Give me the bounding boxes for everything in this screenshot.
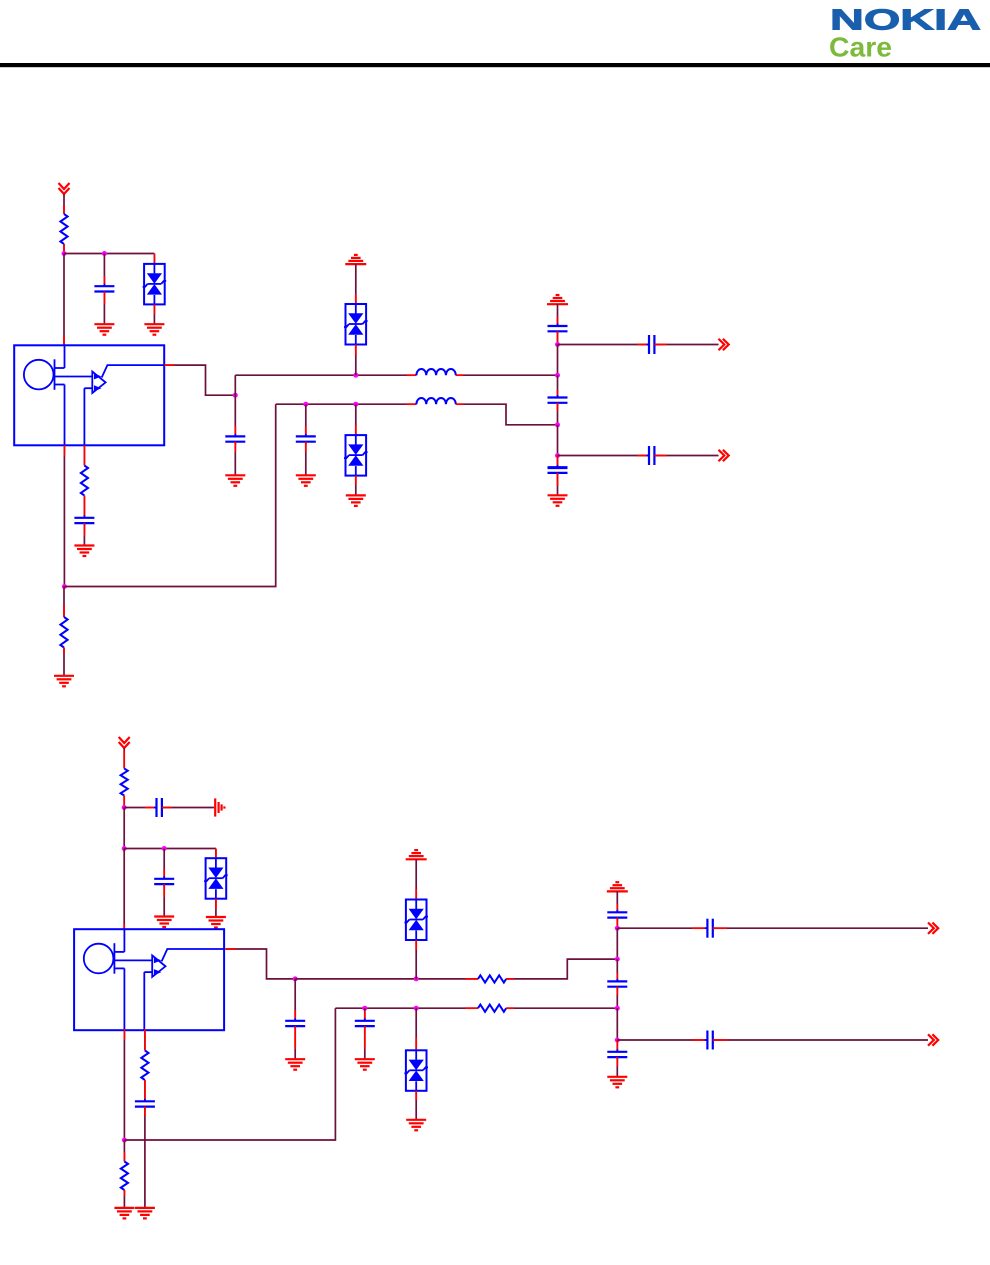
node MIC1P junction (233, 393, 238, 398)
wire OUT2 node to capacitor C7 (557, 456, 559, 468)
capacitor C10 series (145, 798, 164, 817)
TVS diode D4 (204, 858, 228, 899)
wire bus to TVS D4 (215, 849, 217, 859)
wire J1 down to node J2 (123, 808, 125, 849)
wire junction up to positive bus (234, 375, 236, 395)
wire D3 to ground (355, 476, 357, 496)
wire OUT1 node down to bus junction (557, 345, 559, 376)
wire column down to OUT4 node (616, 1008, 618, 1040)
capacitor C3 (296, 434, 316, 444)
resistor R1 bias (60, 214, 67, 244)
wire MIC1 output (164, 365, 235, 395)
wire OUT1 to coupling cap C8 (558, 344, 649, 346)
node B2 junction (122, 1138, 127, 1143)
output port MIC1P (719, 339, 729, 350)
wire R5 to ground (123, 1190, 125, 1208)
ground under C7 (548, 495, 568, 506)
junction negative bus 2 at D6 (414, 1006, 419, 1011)
capacitor C1 bypass (94, 284, 114, 294)
header rule (0, 63, 990, 67)
junction at C1 top (102, 251, 107, 256)
chassis ground above C5 (547, 295, 568, 304)
ground under C1 (94, 324, 114, 335)
junction positive bus at column (555, 373, 560, 378)
capacitor C2 (225, 434, 245, 444)
wire ground to capacitor C5 (557, 304, 559, 326)
ground under D4 (206, 917, 226, 928)
node OUT4 junction (615, 1038, 620, 1043)
wire feedback to negative bus 2 (124, 1008, 335, 1140)
node J1 junction (122, 805, 127, 810)
node A junction (62, 251, 67, 256)
wire C12 to ground (294, 1026, 296, 1059)
wire to capacitor C3 (305, 404, 307, 436)
wire C2 to ground (234, 442, 236, 476)
resistor R4 bias (121, 769, 128, 796)
wire MIC1 source down (63, 445, 65, 586)
capacitor C16 (607, 979, 627, 989)
resistor R6 (141, 1051, 148, 1081)
junction negative bus at column (555, 422, 560, 427)
wire C1 to ground (103, 292, 105, 325)
wire positive bus left of L1 (235, 374, 416, 376)
wire OUT4 to coupling cap C19 (617, 1039, 706, 1041)
junction positive bus 2 at D5 (414, 976, 419, 981)
capacitor C6 (548, 395, 568, 405)
wire C11 to ground (163, 884, 165, 916)
wire R2 to ground (63, 648, 65, 676)
wire C14 to ground (144, 1107, 146, 1208)
ground under D3 (346, 495, 366, 506)
svg-text:Care: Care (829, 32, 892, 63)
ground under C4 (74, 546, 94, 557)
resistor R3 (81, 466, 88, 496)
capacitor C11 (154, 876, 174, 886)
wire C6 down to bus junction (557, 403, 559, 425)
capacitor C5 (548, 324, 568, 334)
node OUT3 junction (615, 926, 620, 931)
wire power to resistor R4 (123, 748, 125, 769)
wire negative bus 2 right of R8 (506, 1007, 617, 1009)
wire bias bus to D1 (153, 254, 155, 264)
wire ground to capacitor C15 (616, 891, 618, 912)
TVS diode D2 (344, 304, 368, 345)
wire D4 to ground (215, 899, 217, 917)
wire C10 to side ground (162, 807, 214, 809)
wire node B2 to resistor R5 (123, 1140, 125, 1162)
wire to capacitor C13 (364, 1008, 366, 1021)
wire C7 to ground (557, 473, 559, 495)
wire negative bus 2 left of R8 (335, 1007, 478, 1009)
node MIC2P junction (293, 976, 298, 981)
microphone MIC2 module (74, 929, 224, 1030)
junction negative bus 2 at C13 (362, 1006, 367, 1011)
wire R3 to capacitor C4 (83, 496, 85, 518)
wire C18 to output port (713, 927, 928, 929)
junction negative bus 2 at column (615, 1006, 620, 1011)
inductor L2 (416, 398, 455, 404)
wire node B to resistor R2 (63, 587, 65, 618)
wire column to capacitor C6 (557, 375, 559, 397)
TVS diode D6 (404, 1050, 428, 1091)
output port MIC2P (928, 923, 938, 934)
capacitor C4 (74, 515, 94, 525)
ground under C14 (135, 1208, 155, 1219)
wire C9 to output port (654, 455, 718, 457)
resistor R2 (60, 617, 67, 648)
wire D2 to positive bus (355, 345, 357, 376)
resistor R8 (478, 1005, 506, 1012)
wire positive bus 2 right of R7 (506, 959, 617, 979)
TVS diode D1 (143, 264, 167, 305)
wire MIC2 pin to resistor R6 (144, 1029, 146, 1050)
wire node A down to microphone MIC1 (63, 254, 65, 346)
ground under C17 (607, 1077, 627, 1088)
node OUT2 junction (555, 453, 560, 458)
TVS diode D3 (344, 435, 368, 476)
capacitor C9 series (647, 446, 657, 465)
chassis ground above D5 (406, 850, 427, 859)
wire column down to OUT2 node (557, 425, 559, 456)
capacitor C17 (607, 1049, 627, 1059)
junction positive bus 2 at column (615, 957, 620, 962)
wire OUT3 to coupling cap C18 (617, 927, 706, 929)
wire to capacitor C1 (103, 254, 105, 287)
ground under D1 (144, 324, 164, 335)
resistor R5 (121, 1162, 128, 1191)
TVS diode D5 (404, 900, 428, 941)
wire bias bus node A right (64, 253, 154, 255)
output port MIC2N (928, 1034, 938, 1045)
node OUT1 junction (555, 342, 560, 347)
chassis ground above D2 (345, 255, 366, 264)
microphone MIC1 module (14, 345, 164, 445)
inductor L1 (416, 369, 455, 375)
wire R6 to capacitor C14 (144, 1080, 146, 1101)
wire ground to D2 (355, 264, 357, 304)
wire column to capacitor C16 (616, 959, 618, 981)
wire MIC2 source down (123, 1029, 125, 1140)
wire feedback to negative bus (64, 404, 275, 586)
junction negative bus at C3 (303, 402, 308, 407)
wire D5 to positive bus 2 (415, 940, 417, 979)
ground under D6 (406, 1120, 426, 1131)
resistor R7 (478, 975, 506, 982)
capacitor C19 series (705, 1031, 715, 1050)
wire OUT3 node down to bus junction (616, 928, 618, 959)
wire C17 to ground (616, 1057, 618, 1077)
capacitor C13 (355, 1018, 375, 1028)
node J2 junction (122, 846, 127, 851)
ground under C13 (355, 1059, 375, 1070)
wire D1 to ground (153, 304, 155, 324)
junction positive bus at D2 (353, 373, 358, 378)
chassis ground right of C10 (215, 798, 224, 816)
capacitor C8 series (647, 335, 657, 354)
wire negative bus right of L2 (456, 404, 558, 425)
wire J2 bus right (124, 848, 216, 850)
power input chevron (mic bias) top circuit (59, 183, 70, 194)
capacitor C12 (285, 1018, 305, 1028)
junction negative bus at D3 (353, 402, 358, 407)
wire J1 to coupling cap C10 (124, 807, 156, 809)
wire C16 down to bus junction (616, 987, 618, 1009)
wire C8 to output port (654, 344, 718, 346)
Nokia logo (829, 5, 981, 63)
ground under C12 (285, 1059, 305, 1070)
chassis ground above C15 (607, 882, 628, 891)
capacitor C14 (135, 1099, 155, 1109)
wire D6 to ground (415, 1091, 417, 1120)
wire junction down to capacitor C2 (234, 395, 236, 436)
wire power to resistor R1 (63, 194, 65, 214)
capacitor C15 (607, 910, 627, 920)
node B junction (62, 584, 67, 589)
wire positive bus 2 left of R7 (295, 978, 478, 980)
output port MIC1N (719, 450, 729, 461)
ground under C3 (296, 475, 316, 486)
wire OUT4 node to capacitor C17 (616, 1040, 618, 1052)
wire to TVS D3 (355, 404, 357, 435)
power input chevron (mic bias) bottom circuit (119, 737, 130, 748)
wire to capacitor C11 (163, 849, 165, 879)
wire C3 to ground (305, 442, 307, 476)
wire MIC1 pin to resistor R3 (83, 445, 85, 465)
wire OUT2 to coupling cap C9 (558, 455, 649, 457)
wire C5 to output node (557, 331, 559, 344)
wire C19 to output port (713, 1039, 928, 1041)
capacitor C7 (548, 465, 568, 475)
capacitor C18 series (705, 919, 715, 938)
wire C4 to ground (83, 523, 85, 545)
wire C15 to output node (616, 918, 618, 929)
ground under R5 (114, 1208, 134, 1219)
wire ground to D5 (415, 859, 417, 899)
junction at C11 (162, 846, 167, 851)
ground under C2 (225, 475, 245, 486)
ground under R2 (54, 676, 74, 687)
wire J2 down to microphone MIC2 (123, 849, 125, 930)
wire MIC2 output (225, 949, 295, 979)
ground under C11 (154, 917, 174, 928)
wire junction down to capacitor C12 (294, 979, 296, 1021)
wire R4 to node J1 (123, 796, 125, 808)
wire negative bus left of L2 (276, 403, 417, 405)
wire C13 to ground (364, 1026, 366, 1059)
wire positive bus right of L1 (456, 374, 558, 376)
wire to TVS D6 (415, 1008, 417, 1050)
wire R1 to node A (63, 244, 65, 254)
